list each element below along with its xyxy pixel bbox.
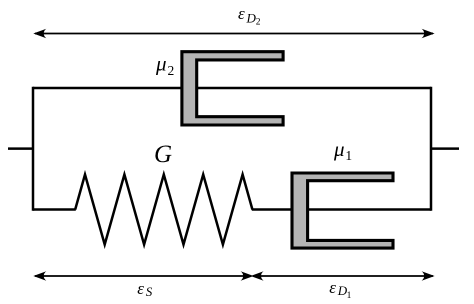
dashpot mu2 (top): gray C-bracket xyxy=(182,52,283,125)
svg-text:μ: μ xyxy=(155,52,167,76)
strain arrow epsilon_S (bottom left, double headed) xyxy=(33,271,253,280)
wire: bottom rail right segment xyxy=(252,208,431,211)
svg-text:ε: ε xyxy=(137,279,144,298)
svg-text:2: 2 xyxy=(256,18,261,28)
svg-text:S: S xyxy=(146,284,153,299)
wire: right stub xyxy=(431,147,459,150)
wire: left stub xyxy=(8,147,34,150)
strain arrow epsilon_D2 (top, double headed) xyxy=(33,29,434,38)
svg-text:ε: ε xyxy=(238,4,245,23)
svg-text:1: 1 xyxy=(345,148,352,163)
wire: top rail xyxy=(33,87,431,90)
dashpot mu1 (bottom right): gray C-bracket xyxy=(292,173,393,248)
svg-text:μ: μ xyxy=(333,137,345,161)
svg-text:2: 2 xyxy=(168,63,175,78)
spring G (zigzag) xyxy=(75,175,252,245)
svg-text:1: 1 xyxy=(347,291,352,301)
svg-text:ε: ε xyxy=(329,278,336,297)
wire: bottom rail left segment xyxy=(33,208,76,211)
wire: right vertical xyxy=(430,87,433,211)
wire: left vertical xyxy=(32,87,35,211)
strain arrow epsilon_D1 (bottom right, double headed) xyxy=(251,271,435,280)
svg-text:G: G xyxy=(154,141,172,168)
